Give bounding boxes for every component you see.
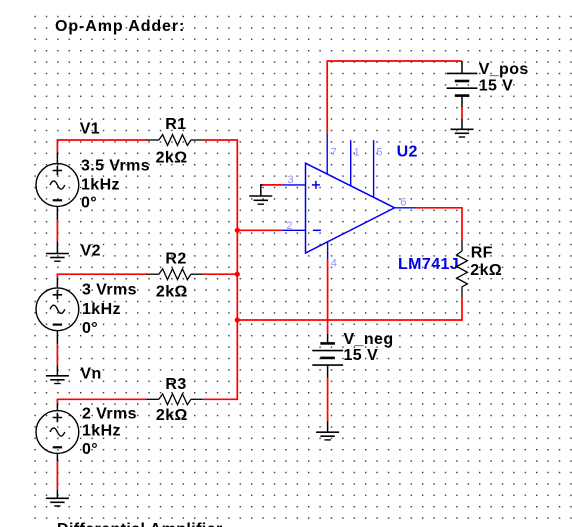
wire RF bottom to feedback bbox=[237, 298, 462, 321]
label R3 bbox=[165, 376, 186, 393]
svg-text:1kHz: 1kHz bbox=[82, 301, 121, 318]
wire V2 to R2 bbox=[57, 274, 147, 278]
svg-text:V_pos: V_pos bbox=[479, 61, 529, 78]
svg-text:7: 7 bbox=[331, 146, 337, 158]
value Vn 0 deg bbox=[82, 441, 98, 458]
value RF 2kOhm bbox=[470, 262, 502, 279]
value V2 0 deg bbox=[82, 320, 98, 337]
svg-text:1kHz: 1kHz bbox=[81, 177, 120, 194]
svg-text:RF: RF bbox=[471, 245, 493, 262]
label V_pos bbox=[479, 61, 529, 78]
value V1 3.5 Vrms bbox=[81, 158, 150, 175]
bottom caption text bbox=[57, 521, 223, 527]
pin number 7 bbox=[331, 146, 337, 158]
pin 6 lead bbox=[395, 207, 417, 209]
wire V1 to ground bbox=[56, 220, 58, 241]
junction at feedback node bbox=[235, 317, 240, 322]
pin number 3 bbox=[288, 174, 294, 186]
wire R3 to feedback node bbox=[203, 320, 238, 399]
wire V_pos to ground bbox=[461, 108, 463, 119]
svg-text:2 Vrms: 2 Vrms bbox=[82, 405, 137, 422]
svg-text:15 V: 15 V bbox=[479, 77, 514, 94]
source V1 bbox=[36, 153, 79, 220]
value R2 2kOhm bbox=[156, 283, 188, 300]
wire pin4 to V_neg bbox=[327, 260, 329, 334]
value V2 1kHz bbox=[82, 301, 121, 318]
title text bbox=[55, 18, 185, 35]
source Vn bbox=[36, 404, 79, 462]
pin number 2 bbox=[286, 220, 292, 232]
svg-text:V2: V2 bbox=[81, 243, 101, 260]
ground below Vn bbox=[46, 490, 69, 506]
op-amp minus marking bbox=[313, 229, 321, 231]
label R2 bbox=[165, 250, 186, 267]
value Vn 1kHz bbox=[82, 423, 121, 440]
resistor RF bbox=[457, 241, 468, 298]
junction at pin2 branch bbox=[235, 228, 240, 233]
wire V2 to ground bbox=[56, 344, 58, 365]
resistor R3 bbox=[147, 394, 203, 405]
svg-text:0°: 0° bbox=[82, 441, 98, 458]
label U2 bbox=[397, 144, 418, 161]
wire R2 to bus bbox=[203, 273, 238, 275]
pin 4 lead bbox=[327, 241, 329, 260]
resistor R2 bbox=[147, 269, 203, 280]
wire pin6 to RF top bbox=[416, 208, 462, 241]
wire pin7 to V_pos rail bbox=[327, 61, 462, 134]
svg-text:R3: R3 bbox=[165, 376, 186, 393]
svg-text:3 Vrms: 3 Vrms bbox=[82, 281, 137, 298]
wire ground to pin3 bbox=[262, 184, 283, 186]
svg-text:2: 2 bbox=[286, 220, 292, 232]
pin number 1 bbox=[354, 146, 360, 158]
ground below V2 bbox=[46, 365, 69, 383]
pin 5 lead bbox=[373, 140, 375, 197]
label LM741J bbox=[398, 256, 459, 273]
value V2 3 Vrms bbox=[82, 281, 137, 298]
svg-text:1kHz: 1kHz bbox=[82, 423, 121, 440]
wire bus to pin2 bbox=[237, 229, 281, 231]
pin 1 lead bbox=[350, 140, 352, 186]
pin number 6 bbox=[400, 197, 406, 209]
wire Vn to ground bbox=[56, 461, 58, 490]
svg-text:V1: V1 bbox=[80, 120, 100, 137]
svg-text:2kΩ: 2kΩ bbox=[156, 149, 188, 166]
pin 7 lead bbox=[326, 134, 328, 174]
wire R1 to bus and bus down bbox=[203, 140, 238, 320]
svg-text:1: 1 bbox=[354, 146, 360, 158]
ground below V1 bbox=[46, 241, 69, 261]
svg-text:2kΩ: 2kΩ bbox=[156, 407, 188, 424]
value Vn 2 Vrms bbox=[82, 405, 137, 422]
source V2 bbox=[36, 279, 79, 345]
svg-text:R1: R1 bbox=[165, 116, 186, 133]
svg-text:Differential Amplifier: Differential Amplifier bbox=[57, 521, 223, 527]
label R1 bbox=[165, 116, 186, 133]
op-amp plus marking bbox=[312, 181, 320, 189]
svg-text:0°: 0° bbox=[82, 320, 98, 337]
pin number 5 bbox=[376, 146, 382, 158]
svg-text:5: 5 bbox=[376, 146, 382, 158]
svg-text:Op-Amp Adder:: Op-Amp Adder: bbox=[55, 18, 185, 35]
svg-text:15 V: 15 V bbox=[344, 347, 379, 364]
battery V_neg bbox=[312, 334, 343, 378]
label V2 bbox=[81, 243, 101, 260]
svg-text:0°: 0° bbox=[81, 195, 97, 212]
pin number 4 bbox=[331, 258, 337, 270]
label V1 bbox=[80, 120, 100, 137]
value R3 2kOhm bbox=[156, 407, 188, 424]
value V_pos 15 V bbox=[479, 77, 514, 94]
label RF bbox=[471, 245, 493, 262]
value R1 2kOhm bbox=[156, 149, 188, 166]
value V_neg 15 V bbox=[344, 347, 379, 364]
label V_neg bbox=[344, 331, 394, 348]
op-amp U1 triangle bbox=[306, 163, 395, 253]
ground at pin3 bbox=[249, 185, 272, 204]
pin 3 lead bbox=[283, 184, 306, 186]
value V1 0 deg bbox=[81, 195, 97, 212]
svg-text:R2: R2 bbox=[165, 250, 186, 267]
svg-text:3: 3 bbox=[288, 174, 294, 186]
svg-text:V_neg: V_neg bbox=[344, 331, 394, 348]
svg-text:Vn: Vn bbox=[80, 366, 101, 383]
ground below V_pos bbox=[451, 119, 474, 138]
wire Vn to R3 bbox=[57, 399, 147, 403]
wire V1 to R1 bbox=[57, 140, 147, 153]
svg-text:6: 6 bbox=[400, 197, 406, 209]
svg-text:2kΩ: 2kΩ bbox=[470, 262, 502, 279]
svg-text:4: 4 bbox=[331, 258, 337, 270]
pin 2 lead bbox=[282, 229, 306, 231]
wire V_neg to ground bbox=[327, 378, 329, 421]
resistor R1 bbox=[147, 135, 203, 146]
junction at R2 input bbox=[235, 272, 240, 277]
value V1 1kHz bbox=[81, 177, 120, 194]
svg-text:2kΩ: 2kΩ bbox=[156, 283, 188, 300]
battery V_pos bbox=[447, 61, 478, 108]
ground below V_neg bbox=[316, 421, 339, 440]
svg-text:3.5 Vrms: 3.5 Vrms bbox=[81, 158, 150, 175]
svg-text:U2: U2 bbox=[397, 144, 418, 161]
label Vn bbox=[80, 366, 101, 383]
svg-text:LM741J: LM741J bbox=[398, 256, 459, 273]
